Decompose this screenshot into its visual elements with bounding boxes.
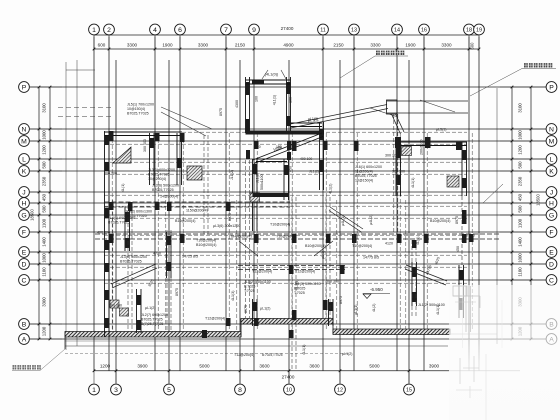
svg-text:B7025,T7025: B7025,T7025 — [127, 112, 149, 116]
svg-text:F: F — [22, 229, 26, 236]
grid line axis 10 (vertical, lower set) — [288, 60, 290, 384]
grid bubble 15 (bottom) — [404, 384, 415, 395]
svg-text:27400: 27400 — [281, 26, 294, 31]
svg-text:3100: 3100 — [518, 103, 523, 113]
grid bubble N (left) — [19, 124, 30, 135]
raft outline dashed lower line — [65, 353, 350, 355]
short top-left horizontal line — [66, 69, 95, 71]
grid line axis 6 (vertical) — [179, 37, 181, 372]
svg-text:3300: 3300 — [198, 42, 209, 47]
right grid bubbles — [546, 82, 557, 345]
svg-text:JL1(2) 500x1100: JL1(2) 500x1100 — [244, 280, 271, 284]
svg-text:1200: 1200 — [100, 364, 111, 369]
grid bubble 19 (top) — [474, 24, 485, 35]
ramp diagonal to axis 14 — [392, 114, 401, 134]
svg-text:1100: 1100 — [42, 267, 47, 277]
leader top right pair — [370, 108, 398, 117]
svg-text:4L1(1): 4L1(1) — [273, 95, 277, 105]
grid line axis J (horizontal) — [30, 191, 546, 193]
grid line axis 15 (vertical, lower set) — [408, 60, 410, 384]
svg-text:B10@200(4): B10@200(4) — [175, 219, 195, 223]
grid line axis P (horizontal) — [30, 86, 546, 88]
grid bubble C (right) — [546, 275, 557, 286]
auxiliary vertical line west edge — [76, 60, 78, 346]
wall on axis 14 upper — [395, 142, 397, 196]
faded underlying content — [449, 286, 512, 348]
svg-text:150: 150 — [276, 145, 282, 149]
raft step at grid 8 — [240, 319, 242, 338]
longitudinal beam axis 15 — [411, 240, 413, 318]
svg-text:G: G — [549, 212, 554, 219]
svg-text:1100: 1100 — [518, 267, 523, 277]
right wing walls — [396, 142, 503, 318]
svg-text:4L(1): 4L(1) — [416, 237, 420, 245]
svg-text:µL1(2): µL1(2) — [260, 307, 270, 311]
longitudinal beam axis 10 — [291, 197, 293, 370]
svg-text:1: 1 — [92, 387, 96, 394]
svg-text:500: 500 — [518, 161, 523, 169]
svg-text:2: 2 — [107, 27, 111, 34]
east wall pier mid — [462, 210, 467, 224]
svg-text:JL1(2): JL1(2) — [230, 170, 234, 180]
svg-text:B:7025: B:7025 — [244, 285, 255, 289]
svg-text:A: A — [22, 336, 27, 343]
svg-text:JL1(2) 500x1100: JL1(2) 500x1100 — [418, 303, 445, 307]
diagonal beam right-mid — [330, 207, 363, 229]
svg-text:4L1(1): 4L1(1) — [302, 345, 306, 355]
right wing second hatched column — [447, 176, 459, 187]
svg-text:T:7025: T:7025 — [244, 289, 255, 293]
grid line axis 16 (vertical) — [423, 37, 425, 372]
diagonal beam lower-right — [406, 265, 447, 281]
grid bubble G (right) — [546, 210, 557, 221]
grid line axis 7 (vertical) — [225, 37, 227, 372]
svg-text:K: K — [549, 168, 554, 175]
grid bubble K (left) — [19, 166, 30, 177]
svg-text:450: 450 — [42, 193, 47, 201]
raft slab bottom edge wall (left run, hatched) — [65, 332, 241, 338]
svg-text:19: 19 — [476, 27, 482, 33]
svg-text:12: 12 — [337, 387, 343, 393]
centre walls — [250, 159, 333, 326]
svg-text:4300: 4300 — [235, 100, 239, 108]
svg-text:27400: 27400 — [282, 375, 295, 380]
wall axis 18 lower — [458, 265, 460, 318]
svg-text:3300: 3300 — [441, 42, 452, 47]
svg-text:L: L — [550, 156, 554, 163]
svg-text:500: 500 — [42, 205, 47, 213]
stair shaft left wall — [245, 77, 247, 133]
svg-text:5000: 5000 — [369, 364, 380, 369]
stair shaft bottom wall / beam — [246, 131, 325, 135]
slab beam companion lines (horizontal) — [104, 131, 467, 133]
svg-text:1900: 1900 — [162, 42, 173, 47]
transverse beam pair at axis D (centre) — [238, 265, 345, 267]
svg-text:B7025,T7025: B7025,T7025 — [152, 188, 174, 192]
sloped ramp beam (double line) — [291, 105, 388, 125]
grid bubble B (left) — [19, 319, 30, 330]
grid line axis 18 (vertical) — [468, 37, 470, 372]
leader arrow near east wall — [483, 184, 503, 203]
small annotations — [97, 100, 475, 357]
svg-text:JL3(6) 500x1200: JL3(6) 500x1200 — [152, 184, 179, 188]
svg-text:T12@200(4): T12@200(4) — [252, 270, 272, 274]
svg-text:8: 8 — [238, 387, 242, 394]
grid bubble H (right) — [546, 198, 557, 209]
stair shaft right wall — [286, 77, 288, 133]
grid line axis 14 (vertical) — [396, 37, 398, 372]
grid line axis F (horizontal) — [30, 231, 546, 233]
svg-text:B7025,T7025: B7025,T7025 — [355, 174, 377, 178]
grid bubble D (right) — [546, 259, 557, 270]
svg-text:14@200(4): 14@200(4) — [160, 195, 178, 199]
svg-text:P: P — [549, 84, 554, 91]
svg-text:µ4L(2): µ4L(2) — [369, 215, 373, 225]
sloped ramp beam — [291, 100, 469, 234]
grid line axis 8 (vertical, lower set) — [239, 60, 241, 384]
svg-text:200x1100: 200x1100 — [420, 139, 424, 155]
grid bubble L (right) — [546, 154, 557, 165]
svg-text:JL3(1) 600x1200: JL3(1) 600x1200 — [148, 168, 175, 172]
grid bubble 12 (bottom) — [335, 384, 346, 395]
svg-text:1200: 1200 — [42, 145, 47, 155]
svg-text:µL5(1): µL5(1) — [436, 128, 446, 132]
grid bubble 4 (top) — [150, 24, 161, 35]
svg-text:1000: 1000 — [42, 253, 47, 263]
svg-text:8975: 8975 — [455, 216, 459, 224]
longitudinal beam axis 9 — [245, 160, 247, 318]
grid line axis C (horizontal) — [30, 279, 546, 281]
grid bubble 7 (top) — [221, 24, 232, 35]
svg-text:K: K — [22, 168, 27, 175]
grid line axis 13 (vertical) — [353, 37, 355, 372]
svg-text:T10@200(4): T10@200(4) — [270, 223, 290, 227]
left wing west wall lower — [104, 284, 106, 337]
column K6 hatched — [187, 166, 202, 180]
grid lines — [30, 37, 546, 384]
longitudinal beam axis 3 — [127, 205, 129, 330]
grid line axis 19 (vertical) — [478, 37, 480, 372]
svg-text:3900: 3900 — [429, 364, 440, 369]
svg-text:1: 1 — [92, 27, 96, 34]
grid bubble 5 (bottom) — [164, 384, 175, 395]
grid bubble P (right) — [546, 82, 557, 93]
svg-text:1400: 1400 — [518, 237, 523, 247]
centre wall axis 9 (below shaft) — [252, 159, 254, 231]
svg-text:450: 450 — [518, 193, 523, 201]
grid line axis N (horizontal) — [30, 128, 546, 130]
grid bubble P (left) — [19, 82, 30, 93]
svg-text:4L(2): 4L(2) — [372, 304, 376, 312]
column hatched near axis 14 — [402, 147, 412, 156]
svg-text:600: 600 — [98, 42, 106, 47]
raft slab bottom edge wall (center raised run, hatched) — [241, 319, 333, 325]
svg-text:H: H — [22, 200, 27, 207]
svg-text:9: 9 — [252, 27, 256, 34]
svg-text:J: J — [22, 189, 25, 196]
svg-text:B10@200(4): B10@200(4) — [430, 219, 450, 223]
elevation triangle marker — [363, 293, 390, 295]
longitudinal beam axis 5 — [166, 230, 168, 330]
svg-text:T:7025: T:7025 — [294, 291, 305, 295]
bottom dimension line — [94, 370, 520, 372]
grid bubble 1 (bottom) — [89, 384, 100, 395]
grid bubble A (right) — [546, 334, 557, 345]
raft slab perimeter — [65, 319, 450, 354]
svg-text:B7025,T7025: B7025,T7025 — [148, 173, 170, 177]
grid bubble 11 (top) — [318, 24, 329, 35]
svg-text:3300: 3300 — [370, 42, 381, 47]
svg-text:10: 10 — [286, 387, 292, 393]
wall mid-left on axis 5 — [166, 232, 168, 278]
svg-text:8975: 8975 — [219, 108, 223, 116]
raft outline lower parallel line — [65, 345, 448, 347]
svg-text:JL1(2): JL1(2) — [309, 170, 319, 174]
svg-text:18500: 18500 — [30, 209, 35, 221]
grid line axis 11 (vertical) — [322, 37, 324, 372]
svg-text:4720: 4720 — [153, 252, 161, 256]
beam under shaft room at axis L — [256, 158, 287, 160]
svg-text:E: E — [22, 249, 27, 256]
svg-text:1100: 1100 — [518, 218, 523, 228]
svg-text:8975: 8975 — [244, 305, 248, 313]
centre lower wall east — [328, 299, 330, 326]
svg-text:T12@200(4): T12@200(4) — [234, 353, 254, 357]
svg-text:300 300: 300 300 — [392, 170, 405, 174]
svg-text:4L1(3): 4L1(3) — [231, 291, 235, 301]
fade overlay — [449, 285, 560, 420]
svg-text:16: 16 — [421, 27, 427, 33]
grid bubble K (right) — [546, 166, 557, 177]
beam lines — [95, 133, 500, 370]
svg-text:11@200(4): 11@200(4) — [355, 170, 373, 174]
svg-text:3300: 3300 — [42, 297, 47, 307]
grid bubble E (left) — [19, 247, 30, 258]
svg-text:M: M — [21, 138, 27, 145]
leader from JL5 text block — [161, 107, 212, 129]
grid line axis E (horizontal) — [30, 251, 546, 253]
svg-text:D: D — [549, 261, 554, 268]
svg-text:10@150(4): 10@150(4) — [355, 179, 373, 183]
sheet label bottom left — [13, 365, 17, 369]
svg-text:JL4(1) 600x1200: JL4(1) 600x1200 — [108, 216, 135, 220]
left grid bubbles — [19, 82, 30, 345]
sheet label top right — [524, 63, 528, 67]
top grid bubbles — [89, 24, 485, 35]
svg-text:4L(1): 4L(1) — [121, 184, 125, 192]
svg-text:300 300: 300 300 — [109, 304, 122, 308]
raft step at grid 12 — [332, 319, 334, 335]
svg-text:3300: 3300 — [127, 42, 138, 47]
wall pier fills — [109, 131, 474, 338]
svg-text:µL1(2): µL1(2) — [342, 352, 352, 356]
grid bubble E (right) — [546, 247, 557, 258]
svg-text:JL6(1) 600x1200: JL6(1) 600x1200 — [355, 165, 382, 169]
svg-text:B10@200(4): B10@200(4) — [196, 243, 216, 247]
sheet labels — [12, 51, 556, 371]
svg-text:6: 6 — [178, 27, 182, 34]
svg-text:10@150(4): 10@150(4) — [127, 107, 145, 111]
left wing west wall (axis 2) upper — [104, 131, 106, 188]
svg-text:1100: 1100 — [42, 218, 47, 228]
grid line axis 4 (vertical) — [154, 37, 156, 372]
grid line axis 5 (vertical, lower set) — [168, 60, 170, 384]
svg-text:E: E — [549, 249, 554, 256]
svg-text:100: 100 — [255, 96, 259, 102]
left wing west wall middle segment — [104, 188, 106, 284]
auxiliary vertical line east outer — [496, 88, 498, 344]
svg-text:450: 450 — [456, 246, 460, 252]
svg-text:B:7025: B:7025 — [294, 287, 305, 291]
svg-text:1150@200(4): 1150@200(4) — [186, 209, 208, 213]
right wing east wall (axis 18) — [461, 142, 463, 196]
svg-text:µL(3): µL(3) — [321, 251, 325, 259]
svg-text:3100: 3100 — [42, 103, 47, 113]
grid line axis 2 (vertical) — [108, 37, 110, 372]
svg-text:C: C — [549, 277, 554, 284]
svg-text:µL1(2): µL1(2) — [145, 306, 155, 310]
svg-text:10@200(4): 10@200(4) — [148, 177, 166, 181]
leader lines above shaft — [262, 70, 268, 79]
grid bubble 2 (top) — [104, 24, 115, 35]
ramp beam horizontal continuation — [387, 100, 468, 102]
wall on axis 3 lower — [136, 289, 138, 333]
grid line axis L (horizontal) — [30, 158, 546, 160]
east wall mid segment — [461, 196, 463, 265]
svg-text:B(7)25,T(7)25: B(7)25,T(7)25 — [141, 322, 163, 326]
ghost title-block marks (on top of wash) — [459, 358, 461, 384]
raft inner parallel line — [65, 340, 240, 342]
main transverse beam pair at axis F — [95, 233, 500, 235]
grid bubble H (left) — [19, 198, 30, 209]
left wing top wall — [105, 131, 183, 133]
grid bubble 14 (top) — [392, 24, 403, 35]
svg-text:13: 13 — [351, 27, 357, 33]
svg-text:4L1(2): 4L1(2) — [329, 184, 333, 194]
svg-text:400 100: 400 100 — [300, 157, 312, 161]
svg-text:T10@200(4): T10@200(4) — [352, 244, 372, 248]
scattered wall pier fills — [292, 141, 297, 151]
wall mid-left on axis 3 — [124, 207, 126, 251]
svg-text:3600: 3600 — [259, 364, 270, 369]
svg-text:1000: 1000 — [518, 130, 523, 140]
grid line axis 9 (vertical) — [253, 37, 255, 372]
grid line axis K (horizontal) — [30, 170, 546, 172]
svg-text:C: C — [22, 277, 27, 284]
svg-text:7: 7 — [224, 27, 228, 34]
grid bubble F (left) — [19, 227, 30, 238]
top overall dimension line 27400 — [94, 34, 479, 36]
svg-text:500x1100: 500x1100 — [260, 174, 264, 190]
faded zone underlying drawing (bottom-right) — [449, 339, 512, 341]
grid line axis 1 (vertical) — [93, 37, 95, 372]
svg-text:1200: 1200 — [42, 326, 47, 336]
white fade overlay (watermark wash, gradient) — [449, 285, 560, 420]
svg-text:14775 8/5: 14775 8/5 — [363, 256, 379, 260]
grid line axis G (horizontal) — [30, 214, 546, 216]
sheet label top centre — [376, 51, 380, 55]
grid line axis B (horizontal) — [30, 323, 546, 325]
beam from shaft to axis 11 — [291, 122, 323, 124]
bottom dimension row — [93, 364, 520, 384]
grid bubble 10 (bottom) — [284, 384, 295, 395]
transverse beam pair at axis J-H — [105, 201, 291, 203]
wall axis 15 lower right — [411, 262, 413, 306]
svg-text:T12@200(4): T12@200(4) — [295, 270, 315, 274]
svg-text:8975: 8975 — [339, 296, 343, 304]
svg-text:500: 500 — [42, 161, 47, 169]
svg-text:4900: 4900 — [283, 42, 294, 47]
svg-text:3900: 3900 — [137, 364, 148, 369]
centre wall axis 10 — [283, 159, 285, 200]
svg-text:J: J — [550, 189, 553, 196]
svg-text:300 400: 300 400 — [143, 139, 147, 152]
column 9/J hatched — [250, 193, 260, 202]
right wing top wall — [396, 141, 467, 143]
stair shaft top wall — [246, 79, 291, 81]
svg-text:µ4L(1): µ4L(1) — [341, 216, 345, 226]
grid line axis A (horizontal) — [30, 338, 546, 340]
top dimension rows — [93, 26, 481, 50]
svg-text:-6.950: -6.950 — [370, 287, 383, 292]
svg-text:T12@200(4): T12@200(4) — [205, 317, 225, 321]
svg-text:D: D — [22, 261, 27, 268]
svg-text:2150: 2150 — [333, 42, 344, 47]
grid bubble 16 (top) — [419, 24, 430, 35]
grid bubble 6 (top) — [175, 24, 186, 35]
svg-text:600: 600 — [470, 42, 475, 50]
ghost title-block marks in faded zone — [462, 286, 464, 348]
grid bubble A (left) — [19, 334, 30, 345]
centre lower wall west — [252, 299, 254, 326]
svg-text:G: G — [21, 212, 26, 219]
svg-text:11: 11 — [320, 27, 326, 33]
grid bubble 9 (top) — [249, 24, 260, 35]
svg-text:1900: 1900 — [405, 42, 416, 47]
grid bubble J (left) — [19, 187, 30, 198]
svg-text:4120: 4120 — [385, 242, 393, 246]
svg-text:JL2(7) 600x1200: JL2(7) 600x1200 — [141, 313, 168, 317]
grid bubble B (right) — [546, 319, 557, 330]
svg-text:H: H — [549, 200, 554, 207]
longitudinal beam axis 6/7 aux — [203, 135, 205, 234]
right dimension rows — [500, 86, 546, 341]
slab beam companion lines (vertical) — [111, 133, 113, 331]
svg-text:5000: 5000 — [199, 364, 210, 369]
wall on axis 11 below shaft — [319, 122, 321, 190]
right dimension line (outer) — [530, 87, 532, 339]
ramp longitudinal beam pair on axis 14 — [393, 114, 395, 234]
svg-text:B7025,T7025: B7025,T7025 — [141, 318, 163, 322]
grid bubble M (left) — [19, 136, 30, 147]
svg-text:450: 450 — [289, 166, 293, 172]
svg-text:T10@200(4): T10@200(4) — [196, 239, 216, 243]
wall on axis 4 upper — [149, 133, 151, 185]
dashed auxiliary rows top-left — [58, 107, 112, 109]
grid line axis H (horizontal) — [30, 202, 546, 204]
corner column with hatch (triangle) — [113, 147, 131, 163]
svg-text:JL5(1) 700x1200: JL5(1) 700x1200 — [127, 103, 154, 107]
svg-text:B:7025,T:7025: B:7025,T:7025 — [262, 353, 283, 357]
bottom grid bubbles — [89, 384, 415, 395]
svg-text:300 300: 300 300 — [385, 154, 398, 158]
left dimension line (inner) — [49, 87, 51, 339]
svg-text:1000: 1000 — [518, 253, 523, 263]
svg-text:B10@200(4): B10@200(4) — [305, 244, 325, 248]
grid bubble J (right) — [546, 187, 557, 198]
diagonal beam centre-right V — [314, 241, 333, 256]
ramp landing column — [387, 100, 398, 114]
